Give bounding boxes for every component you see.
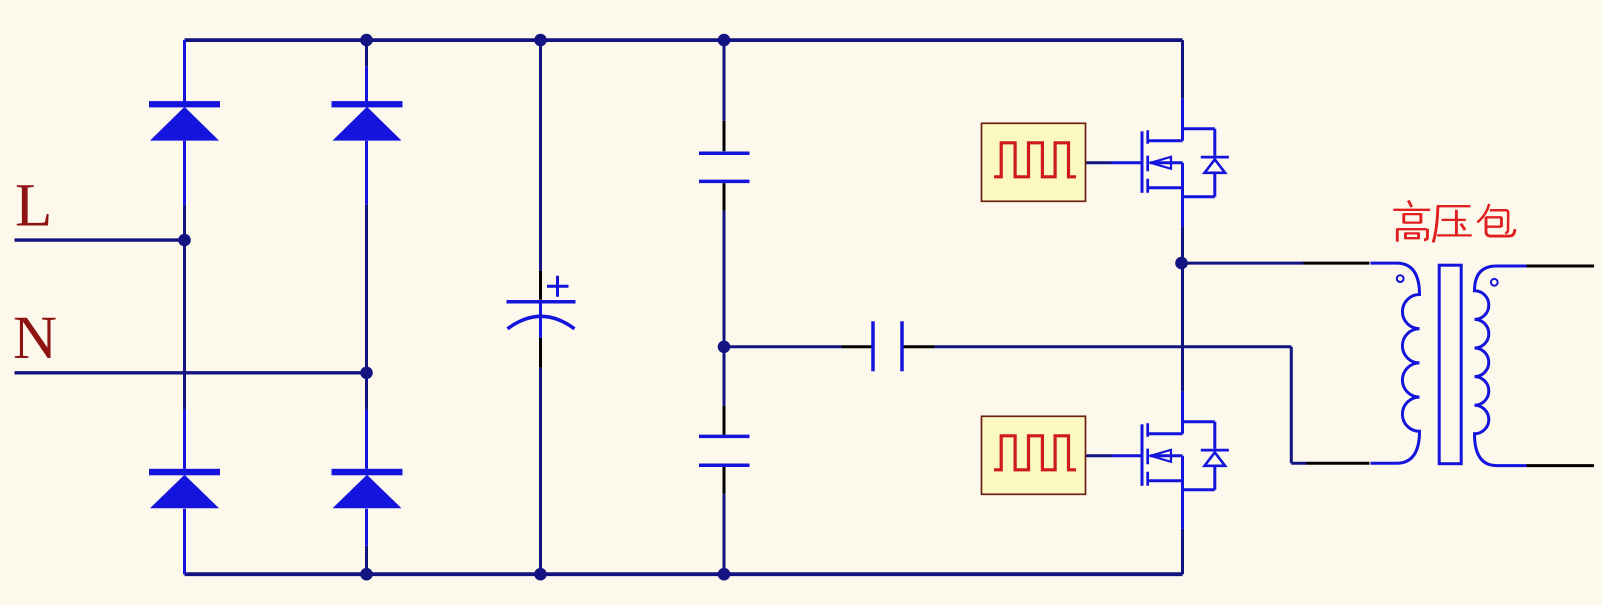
svg-text:N: N — [13, 305, 57, 372]
svg-text:L: L — [15, 173, 52, 240]
